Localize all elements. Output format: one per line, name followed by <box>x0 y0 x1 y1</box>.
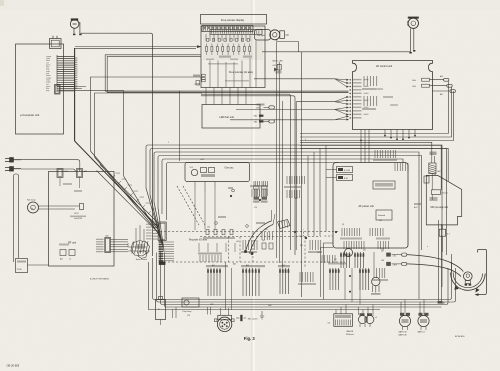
svg-text:14.5V: 14.5V <box>74 213 79 215</box>
svg-text:10u: 10u <box>31 208 34 210</box>
svg-text:R12: R12 <box>300 245 303 247</box>
svg-text:OE-20-555: OE-20-555 <box>7 364 20 368</box>
svg-text:5: 5 <box>168 142 169 144</box>
svg-text:Dial B 2W: Dial B 2W <box>74 218 82 220</box>
svg-text:C06: C06 <box>207 227 210 229</box>
svg-text:blue: blue <box>46 67 49 69</box>
svg-text:SANYO-M: SANYO-M <box>399 334 407 337</box>
svg-text:black: black <box>46 60 50 62</box>
svg-text:LS R: LS R <box>393 265 398 267</box>
svg-text:pink: pink <box>46 73 49 75</box>
svg-text:C1: C1 <box>69 259 71 261</box>
svg-text:A11: A11 <box>60 258 63 261</box>
svg-text:Meter LED: Meter LED <box>273 59 284 62</box>
svg-text:LED bar unit: LED bar unit <box>220 115 235 119</box>
svg-text:4: 4 <box>305 139 306 141</box>
svg-text:red: red <box>46 62 48 64</box>
svg-text:RF unit: RF unit <box>68 242 76 245</box>
svg-text:Q10: Q10 <box>381 249 384 251</box>
svg-text:AF control unit: AF control unit <box>376 65 392 68</box>
svg-text:gray: gray <box>46 90 49 92</box>
svg-text:Q12: Q12 <box>363 250 366 252</box>
svg-text:AF power unit: AF power unit <box>359 205 375 208</box>
svg-text:SANYO-M: SANYO-M <box>399 331 407 334</box>
svg-text:blue: blue <box>46 88 49 90</box>
svg-text:A10: A10 <box>106 235 109 238</box>
svg-text:Freq counter display: Freq counter display <box>221 18 245 22</box>
svg-text:Q11: Q11 <box>334 259 337 261</box>
svg-text:A12: A12 <box>84 170 87 173</box>
svg-text:TX RF: TX RF <box>17 269 23 271</box>
svg-text:a: a <box>427 246 428 248</box>
svg-text:SANYO-T: SANYO-T <box>418 331 426 334</box>
svg-text:LINE/DIN: LINE/DIN <box>346 331 354 333</box>
svg-text:orange: orange <box>46 77 51 79</box>
svg-text:+100: +100 <box>272 65 276 67</box>
svg-text:C08: C08 <box>381 260 384 262</box>
svg-text:100k: 100k <box>412 86 416 88</box>
svg-text:14.5: 14.5 <box>190 167 193 169</box>
svg-text:light: light <box>285 34 289 37</box>
svg-text:100k: 100k <box>412 80 416 82</box>
svg-text:C20: C20 <box>254 207 257 209</box>
svg-text:green: green <box>46 86 50 88</box>
svg-text:R31: R31 <box>265 229 268 231</box>
svg-text:Q9: Q9 <box>342 224 344 226</box>
svg-text:gray: gray <box>46 69 49 71</box>
svg-text:Fig. 3: Fig. 3 <box>244 336 256 341</box>
svg-text:Ree lamp: Ree lamp <box>27 200 36 202</box>
svg-text:brown: brown <box>46 75 50 77</box>
svg-text:L04: L04 <box>236 241 239 243</box>
svg-text:µ Computer unit: µ Computer unit <box>20 113 39 117</box>
svg-text:Gen osc: Gen osc <box>225 167 235 170</box>
svg-text:Remote: Remote <box>442 192 448 195</box>
svg-text:LS L: LS L <box>393 255 397 257</box>
svg-text:orange: orange <box>46 56 51 58</box>
svg-text:4.7: 4.7 <box>447 234 450 236</box>
svg-text:A-07: A-07 <box>414 206 418 209</box>
svg-text:C09: C09 <box>280 231 283 233</box>
svg-text:A12: A12 <box>65 170 68 173</box>
svg-text:B 13.8V: B 13.8V <box>344 170 351 172</box>
svg-text:Poly timing: Poly timing <box>183 310 192 313</box>
svg-text:SW board: SW board <box>346 333 354 336</box>
svg-text:Freq counter pb assy: Freq counter pb assy <box>229 70 254 74</box>
svg-text:C31: C31 <box>317 252 320 254</box>
svg-text:MIC switch: MIC switch <box>248 317 258 320</box>
svg-text:MIC pre-amp unit: MIC pre-amp unit <box>431 206 449 209</box>
svg-text:Q07: Q07 <box>262 240 265 242</box>
svg-text:green: green <box>46 64 50 66</box>
svg-text:Solenoid: Solenoid <box>378 215 385 217</box>
svg-text:red: red <box>46 84 48 86</box>
svg-text:Δ ONLY FOR SWISS: Δ ONLY FOR SWISS <box>90 278 109 281</box>
svg-text:Tone control: Tone control <box>136 258 148 261</box>
svg-text:EI 94-816: EI 94-816 <box>455 336 465 338</box>
